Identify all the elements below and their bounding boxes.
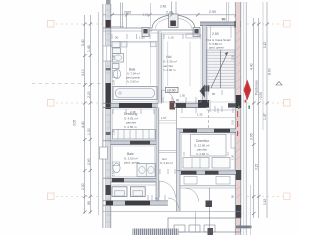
axis marker square A-left xyxy=(48,21,55,28)
Baie label xyxy=(126,68,140,84)
svg-text:2.59: 2.59 xyxy=(212,32,219,36)
Baie room (top-left): wall between Baie and Hol x=158-161.5 xyxy=(158,31,162,104)
small marks in corridor bottom xyxy=(160,169,175,174)
dim ticks near Dormitor right window xyxy=(231,134,236,148)
svg-text:1.47: 1.47 xyxy=(263,113,267,120)
svg-text:1.10: 1.10 xyxy=(143,13,149,17)
staircase center rail xyxy=(220,50,222,88)
svg-text:3.05: 3.05 xyxy=(73,120,77,126)
dresser row above wall xyxy=(183,158,209,169)
top dimension line (y=14.8) xyxy=(103,14,236,16)
axis marker square B-left xyxy=(48,100,55,107)
left dimension line 1 (x=84.7) xyxy=(84,15,86,214)
left margin total dim text xyxy=(73,120,77,126)
svg-text:2.30: 2.30 xyxy=(81,183,85,190)
interior vertical dim line x=190 xyxy=(189,42,191,87)
line above appliances xyxy=(111,184,156,186)
svg-text:2.46: 2.46 xyxy=(160,5,166,9)
bottom wall of main block y=200.5-205.5 xyxy=(111,201,168,205)
property dashed line (gray, y=83.5) xyxy=(32,83,103,85)
Dormitor label xyxy=(194,139,210,156)
axis marker square B-right xyxy=(284,100,291,107)
svg-text:h: 2.60 m: h: 2.60 m xyxy=(127,80,139,84)
Dormitor dim ticks xyxy=(184,152,228,156)
stair hall upper-vertical lines xyxy=(210,26,212,38)
terrace steps teeth xyxy=(174,225,215,232)
svg-text:1.30: 1.30 xyxy=(87,128,91,135)
staircase direction arrow xyxy=(211,52,228,88)
inner outline Baie2 xyxy=(112,146,154,177)
bow window pillar left xyxy=(142,28,149,37)
svg-text:+2.55: +2.55 xyxy=(259,92,263,100)
door arc at bottom wall xyxy=(168,198,179,209)
green survey tick xyxy=(248,106,250,109)
Dormitor lower wall y=170.5-174.5 xyxy=(180,171,236,175)
inner outline Dormitor xyxy=(182,134,235,170)
left wall black segment (lower) xyxy=(106,185,111,195)
Baie top boxes xyxy=(112,41,120,47)
hatched text bar bottom-left (crama) xyxy=(133,229,179,236)
Hol radiator xyxy=(186,34,198,38)
svg-text:±0.00: ±0.00 xyxy=(167,89,176,93)
Baie2 toilet xyxy=(113,163,120,172)
left interior skirting lines xyxy=(111,45,113,47)
small level glyph right margin xyxy=(276,82,282,86)
svg-text:4.40: 4.40 xyxy=(81,121,85,128)
right dimension line x=263 xyxy=(262,2,264,130)
interior dim ticks row y=36 (right rooms) xyxy=(164,34,200,39)
left wall fixtures ticks (x=112-120 column small text) xyxy=(112,54,116,176)
svg-text:Dormitor: Dormitor xyxy=(196,139,210,143)
bottom right contour marks xyxy=(250,185,252,235)
Baie2 label xyxy=(124,152,140,165)
svg-text:95: 95 xyxy=(212,92,216,96)
section arrow (black, pointing left) xyxy=(200,85,205,98)
svg-text:45: 45 xyxy=(155,197,159,201)
top wall left section (y=28-31) xyxy=(103,27,152,29)
svg-text:3.95: 3.95 xyxy=(250,133,254,140)
level marker box ±0.00 xyxy=(166,87,179,92)
inner outline stair hall xyxy=(208,27,235,102)
dark door threshold block xyxy=(170,101,176,110)
dark blob near corridor exit xyxy=(206,201,213,208)
corridor right wall x=176.5-180 (y=128-211) xyxy=(177,129,181,212)
lower terrace rectangle with steps xyxy=(168,218,241,232)
right dimension rotated labels xyxy=(250,63,272,140)
Baie2 sink cabinet xyxy=(137,164,156,177)
Hol room label (top middle) xyxy=(163,55,177,72)
svg-text:1.20: 1.20 xyxy=(231,154,235,160)
svg-text:2.10: 2.10 xyxy=(231,119,235,125)
axis marker square C-left xyxy=(48,193,55,200)
left dimension line 3 (x=98.6) xyxy=(98,12,100,215)
svg-text:1.05: 1.05 xyxy=(180,94,186,98)
left wall black segment (middle) xyxy=(106,83,111,109)
chimney block at top xyxy=(169,14,179,28)
right contour lines xyxy=(243,2,245,235)
inner outline Hol xyxy=(163,35,201,103)
right dimension ticks xyxy=(252,23,269,216)
svg-text:2.20: 2.20 xyxy=(87,91,91,98)
axis line A (horizontal, orange dashed, y=24) xyxy=(56,23,283,25)
svg-text:Baie: Baie xyxy=(127,152,134,156)
appliance box 2 above bottom wall xyxy=(130,187,145,197)
svg-text:Pardosea: Pardosea xyxy=(255,80,259,95)
door arc lower xyxy=(185,188,199,202)
newel dark block xyxy=(205,86,209,92)
svg-text:h: 2.60 m: h: 2.60 m xyxy=(196,152,209,156)
svg-text:8.90: 8.90 xyxy=(268,68,272,75)
svg-text:pard. gresie: pard. gresie xyxy=(209,45,224,49)
dark band right of wall at bottom xyxy=(236,226,252,229)
axis marker square C-right xyxy=(284,193,291,200)
wall line under arch xyxy=(149,29,196,31)
strip above Dormitor: line y=117.5 xyxy=(180,117,236,119)
left dimension tick marks xyxy=(83,23,92,214)
svg-text:1.45: 1.45 xyxy=(87,45,91,52)
Dormitor top wall y=128.5-132.5 xyxy=(180,129,236,133)
axis line B (horizontal, orange dashed, y=103) xyxy=(56,102,283,104)
left exterior wall band (x=103-110.6) xyxy=(103,4,111,228)
wall Dressing/Baie2 y=140.5-144.5 xyxy=(111,141,156,145)
left wall window gap (Baie2) white rect xyxy=(100,147,108,159)
chimney flue lines up xyxy=(171,2,173,15)
tick row y=110-114 below middle wall xyxy=(113,109,154,114)
svg-text:3.15: 3.15 xyxy=(255,164,259,170)
svg-text:1.85: 1.85 xyxy=(139,36,145,40)
Baie toilet xyxy=(113,64,120,69)
Baie sink xyxy=(113,48,121,54)
Dressing wardrobe row xyxy=(113,130,156,140)
corridor threshold lines xyxy=(159,150,177,152)
stair hall wall (x=202-206) xyxy=(203,26,207,104)
right dimension line x=253.5 xyxy=(253,18,255,218)
right wall hatch marks xyxy=(236,30,240,228)
right dimension line x=258.5 xyxy=(258,18,260,218)
Dormitor bed rect xyxy=(191,135,227,157)
svg-text:90: 90 xyxy=(222,17,226,21)
svg-text:1.12: 1.12 xyxy=(263,42,267,48)
stair hall label xyxy=(207,38,232,49)
left wall window gap (Baie) xyxy=(104,46,111,61)
terrace edge line y=211.5 xyxy=(103,211,241,213)
Baie dim ticks row (y=36) xyxy=(112,34,150,39)
svg-text:1.35: 1.35 xyxy=(231,54,235,60)
svg-text:4.40: 4.40 xyxy=(250,63,254,70)
svg-text:5.40: 5.40 xyxy=(81,39,85,46)
section diamond (red) xyxy=(243,80,251,101)
left dimension numbers (rotated) xyxy=(81,39,91,205)
svg-text:S: 3.10 m²: S: 3.10 m² xyxy=(160,161,173,165)
svg-text:90: 90 xyxy=(176,98,180,102)
bow window arc (top center) xyxy=(152,15,195,28)
Baie dim verticals xyxy=(126,42,128,85)
svg-text:1.10: 1.10 xyxy=(168,36,174,40)
corridor door arc (bottom) xyxy=(159,181,176,198)
terrace inner verticals xyxy=(195,212,197,233)
line left of arch xyxy=(150,3,152,28)
Baie bathtub xyxy=(113,87,157,100)
top wall right black corner xyxy=(235,21,241,28)
Dressing room label xyxy=(124,112,138,129)
tick row above middle wall y=98-102 xyxy=(163,97,196,103)
inner outline Baie xyxy=(112,43,156,102)
svg-text:2.60: 2.60 xyxy=(87,158,91,165)
Baie interior top line xyxy=(111,41,158,43)
Hol door arc to Baie xyxy=(162,90,174,103)
axis line C (horizontal, orange dashed, y=196.5) xyxy=(56,196,283,198)
right wall black segment (y=205-218) xyxy=(236,205,241,218)
svg-text:h: 2.60 m: h: 2.60 m xyxy=(124,125,137,129)
middle wall band y=103-107.5 (left part) xyxy=(111,103,158,107)
svg-text:95: 95 xyxy=(87,201,91,205)
left wall black segment (top) xyxy=(106,20,111,28)
double lines y=185.8/188 xyxy=(180,185,236,187)
svg-text:2.15: 2.15 xyxy=(263,199,267,205)
centerline dashes x=208.5 xyxy=(208,110,210,129)
svg-text:h: 2.60 m: h: 2.60 m xyxy=(163,68,176,72)
red section dashes below diamond xyxy=(237,111,239,136)
furniture row below wall xyxy=(184,177,197,185)
top-left porch lines xyxy=(119,3,121,29)
interior vertical dim line x=168 (corridor) xyxy=(167,42,169,87)
right wall interior texts xyxy=(231,54,235,198)
right wall black segment (y=170-180) xyxy=(236,170,241,180)
dim ticks right of appliances xyxy=(148,195,165,200)
left dimension line 2 (x=90.3) xyxy=(89,15,91,214)
right exterior wall band (x=235.5-241) xyxy=(235,2,241,235)
corridor left wall x=156-158.5 (y=103-200) xyxy=(156,108,159,203)
dim ticks row y=110 xyxy=(210,100,222,112)
staircase treads xyxy=(207,50,236,88)
right outside rotated labels 2 xyxy=(255,42,268,205)
top wall right section (y=22-25.5) xyxy=(200,22,236,26)
corridor upper marks xyxy=(159,120,177,122)
svg-text:2.28: 2.28 xyxy=(130,110,136,114)
middle wall right part xyxy=(174,103,206,107)
svg-text:3.10: 3.10 xyxy=(81,69,85,76)
svg-text:2.90: 2.90 xyxy=(209,10,216,14)
left wall small dark ticks xyxy=(106,132,111,135)
wall below Baie2 y=178-182 xyxy=(111,178,156,182)
svg-text:1.35: 1.35 xyxy=(197,113,203,117)
svg-text:1.57: 1.57 xyxy=(161,116,167,120)
middle wall black segment xyxy=(119,103,152,108)
bow window pillar right xyxy=(193,28,200,37)
svg-text:90: 90 xyxy=(115,36,119,40)
svg-text:Hol: Hol xyxy=(166,55,172,59)
top extra ticks on y=14.8 line xyxy=(125,13,174,17)
right wall black segment (y=95-108) xyxy=(236,95,241,108)
verticals above right wall xyxy=(225,2,227,22)
top-left wall ticks at y=0-5 xyxy=(106,0,111,5)
inner outline Dressing xyxy=(112,109,154,139)
middle wall stub near right exterior xyxy=(228,103,236,107)
right dimension line x=267 xyxy=(266,2,268,218)
axis marker square A-right xyxy=(284,21,291,28)
appliance box 1 above bottom wall xyxy=(112,187,127,197)
